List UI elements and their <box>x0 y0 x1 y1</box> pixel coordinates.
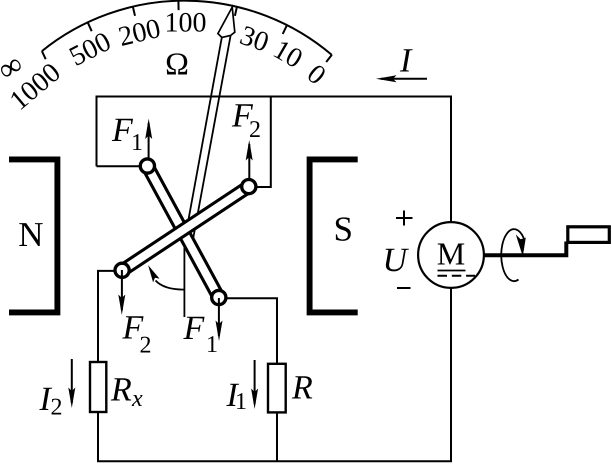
svg-text:1: 1 <box>206 332 218 358</box>
svg-text:2: 2 <box>249 117 261 143</box>
svg-text:1: 1 <box>235 389 247 415</box>
svg-text:100: 100 <box>165 8 207 39</box>
svg-text:2: 2 <box>51 395 63 421</box>
svg-text:1: 1 <box>131 130 143 156</box>
svg-text:x: x <box>131 386 143 412</box>
svg-text:F: F <box>183 310 206 347</box>
svg-text:S: S <box>333 209 352 248</box>
svg-text:M: M <box>437 236 465 272</box>
svg-text:R: R <box>291 370 313 407</box>
svg-text:Ω: Ω <box>165 46 189 82</box>
svg-text:R: R <box>110 372 132 409</box>
svg-text:2: 2 <box>140 333 152 359</box>
svg-text:N: N <box>18 215 43 254</box>
svg-text:U: U <box>383 242 410 279</box>
svg-text:I: I <box>399 43 413 80</box>
